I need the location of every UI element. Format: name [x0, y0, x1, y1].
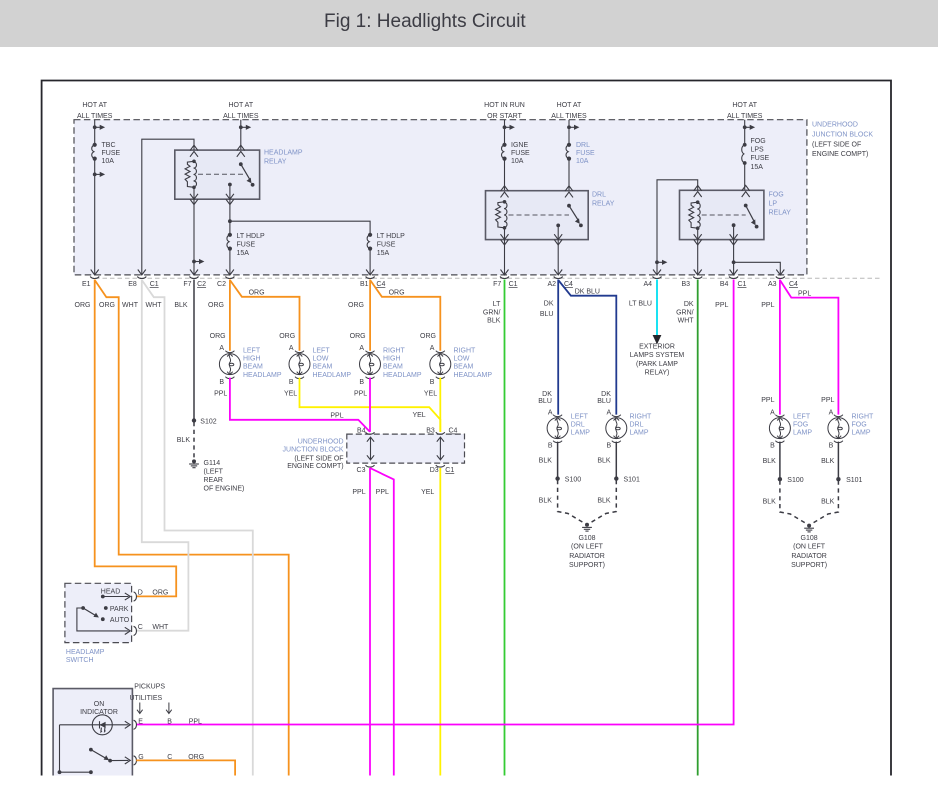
svg-text:PPL: PPL	[376, 489, 389, 496]
svg-text:ORG: ORG	[348, 302, 364, 309]
svg-text:F7: F7	[183, 281, 191, 288]
svg-text:LEFT: LEFT	[793, 413, 811, 420]
label ON INDICATOR	[80, 701, 118, 716]
svg-text:BLK: BLK	[539, 458, 553, 465]
fuse LT HDLP FUSE 15A right	[367, 233, 372, 251]
svg-text:BLK: BLK	[597, 498, 611, 505]
wire TBC feed	[94, 120, 96, 275]
svg-text:E: E	[138, 718, 143, 725]
svg-text:B3: B3	[426, 428, 435, 435]
label A2 C4	[547, 281, 573, 288]
svg-text:WHT: WHT	[152, 624, 169, 631]
connector cup C2	[225, 277, 234, 279]
svg-text:G108: G108	[578, 535, 595, 542]
svg-text:UNDERHOOD: UNDERHOOD	[812, 121, 858, 128]
svg-text:G114: G114	[204, 460, 221, 467]
pin chevrons DRL coil bottom	[501, 234, 509, 245]
label DK GRN/ WHT	[676, 301, 694, 325]
svg-text:GRN/: GRN/	[676, 309, 694, 316]
actuator dashed link	[198, 173, 246, 175]
fuse LT HDLP FUSE 15A left	[227, 233, 232, 251]
svg-text:JUNCTION BLOCK: JUNCTION BLOCK	[812, 132, 873, 139]
svg-text:HEADLAMP: HEADLAMP	[383, 372, 422, 379]
svg-text:LT HDLP: LT HDLP	[377, 233, 405, 240]
svg-text:ORG: ORG	[420, 333, 436, 340]
coil FOG relay	[689, 200, 700, 230]
label DK BLU at right DRL lamp	[597, 391, 611, 405]
svg-text:LT: LT	[493, 301, 501, 308]
svg-text:C1: C1	[738, 281, 747, 288]
fuse IGNE FUSE 10A	[502, 143, 507, 161]
label HEADLAMP SWITCH	[66, 649, 105, 664]
node B+ tap dot arrow	[93, 125, 105, 130]
svg-text:B: B	[548, 443, 553, 450]
svg-text:BLK: BLK	[597, 458, 611, 465]
wire into LED	[60, 724, 129, 726]
node tap dot arrow	[567, 125, 579, 130]
svg-text:LP: LP	[769, 200, 778, 207]
switch output pin DRL relay	[556, 224, 560, 275]
node HOT IN RUN OR START	[484, 102, 525, 120]
svg-text:A2: A2	[547, 281, 556, 288]
label G114 (LEFT REAR OF ENGINE)	[204, 460, 245, 492]
label EXTERIOR LAMPS SYSTEM (PARK LAMP RELAY)	[630, 344, 685, 377]
node tap dot arrow 2	[93, 172, 105, 177]
svg-text:B: B	[359, 379, 364, 386]
label LT HDLP FUSE 15A left	[237, 233, 265, 257]
svg-text:FUSE: FUSE	[237, 242, 256, 249]
svg-text:BLK: BLK	[821, 498, 835, 505]
wire LT GRN/BLK down	[504, 280, 506, 776]
jb2 internal arrow right	[437, 437, 444, 460]
wire BLK dashed left DRL to G108	[558, 480, 584, 523]
svg-text:15A: 15A	[237, 250, 250, 257]
svg-text:BEAM: BEAM	[454, 363, 474, 370]
svg-text:AUTO: AUTO	[110, 617, 130, 624]
svg-text:LPS: LPS	[751, 146, 765, 153]
connector cup B3 (fog coil)	[693, 277, 702, 279]
svg-text:ORG: ORG	[99, 302, 115, 309]
wire BLK dashed right DRL to G108	[590, 480, 616, 523]
label FOG LPS FUSE 15A	[751, 138, 770, 171]
svg-text:C4: C4	[449, 428, 458, 435]
connector cup B3	[436, 432, 445, 434]
svg-text:A: A	[548, 410, 553, 417]
switch pivot indicator	[89, 748, 93, 752]
wire BLK left DRL to S100	[557, 442, 559, 479]
svg-text:YEL: YEL	[412, 412, 425, 419]
label D3 C1	[430, 467, 455, 474]
wire YEL D3 down	[439, 468, 441, 776]
svg-text:RIGHT: RIGHT	[630, 413, 653, 420]
label LT HDLP FUSE 15A right	[377, 233, 405, 257]
lamp RIGHT FOG LAMP	[828, 415, 849, 443]
svg-text:WHT: WHT	[122, 302, 139, 309]
wire ORG E1 branch 2 (to bottom)	[95, 280, 289, 776]
pointer arrow to B	[166, 703, 172, 714]
arrow into C	[125, 627, 131, 634]
svg-text:B: B	[219, 379, 224, 386]
wire ORG E1 branch 1 (to headlamp switch D)	[95, 280, 177, 597]
svg-text:E8: E8	[128, 281, 137, 288]
actuator dashed link FOG	[702, 214, 746, 216]
svg-text:HEADLAMP: HEADLAMP	[264, 150, 303, 157]
wire IGNE feed	[504, 120, 506, 191]
svg-text:DK BLU: DK BLU	[575, 289, 600, 296]
wire WHT E8 branch 2 (to bottom)	[142, 280, 253, 776]
svg-text:C1: C1	[445, 467, 454, 474]
svg-text:D: D	[138, 590, 143, 597]
svg-text:PPL: PPL	[214, 391, 227, 398]
node tap dot arrow	[239, 125, 251, 130]
coil DRL relay	[496, 200, 507, 230]
svg-text:ALL TIMES: ALL TIMES	[551, 113, 587, 120]
node HOT AT ALL TIMES (FOG)	[727, 102, 763, 120]
svg-text:BEAM: BEAM	[313, 363, 333, 370]
svg-text:HEAD: HEAD	[101, 589, 120, 596]
label PICKUPS UTILITIES	[130, 684, 166, 703]
svg-text:A: A	[829, 410, 834, 417]
svg-text:C3: C3	[357, 467, 366, 474]
svg-text:BLU: BLU	[540, 311, 554, 318]
svg-text:ORG: ORG	[389, 290, 405, 297]
svg-text:RELAY: RELAY	[592, 200, 615, 207]
wire PPL A3 to left fog lamp	[779, 280, 781, 415]
svg-text:(LEFT SIDE OF: (LEFT SIDE OF	[294, 455, 343, 462]
connector cup C	[134, 626, 137, 635]
label RIGHT HIGH BEAM HEADLAMP	[383, 347, 422, 379]
label LEFT DRL LAMP	[571, 413, 590, 436]
ground G108 (fog)	[804, 524, 814, 532]
wire BLK dashed right fog to G108	[812, 481, 838, 524]
svg-text:FUSE: FUSE	[576, 150, 595, 157]
svg-text:15A: 15A	[751, 164, 764, 171]
svg-text:HEADLAMP: HEADLAMP	[66, 649, 105, 656]
label RIGHT LOW BEAM HEADLAMP	[454, 347, 493, 379]
svg-text:10A: 10A	[102, 158, 115, 165]
node S102	[192, 418, 217, 425]
svg-text:UNDERHOOD: UNDERHOOD	[298, 438, 344, 445]
connector cup E	[134, 720, 137, 729]
svg-text:BLU: BLU	[538, 398, 552, 405]
svg-text:B: B	[607, 443, 612, 450]
svg-text:YEL: YEL	[421, 489, 434, 496]
wire YEL lamp4 to B3	[439, 378, 441, 432]
wire headlamp relay switch feed	[240, 120, 242, 165]
switch blade DRL relay	[569, 206, 583, 228]
label B4 C1	[720, 281, 747, 288]
wire ORG B1 branch to right low beam	[370, 280, 440, 351]
svg-text:BLK: BLK	[177, 437, 191, 444]
LED indicator	[92, 715, 112, 735]
wire PPL lamp1 to B4	[230, 378, 370, 432]
svg-text:S100: S100	[787, 477, 803, 484]
label D ORG	[138, 590, 169, 597]
label E B PPL	[138, 718, 202, 725]
svg-text:B: B	[770, 443, 775, 450]
pin chevrons output bottom	[226, 194, 234, 205]
svg-text:10A: 10A	[511, 158, 524, 165]
lamp RIGHT HIGH BEAM HEADLAMP	[360, 351, 381, 379]
svg-text:RIGHT: RIGHT	[852, 413, 875, 420]
label A3 C4	[768, 281, 798, 288]
svg-text:ALL TIMES: ALL TIMES	[223, 113, 259, 120]
svg-text:HOT IN RUN: HOT IN RUN	[484, 102, 525, 109]
svg-text:BEAM: BEAM	[243, 363, 263, 370]
label LEFT HIGH BEAM HEADLAMP	[243, 347, 282, 379]
svg-text:LEFT: LEFT	[313, 347, 331, 354]
wire DK BLU A2 branch to right DRL lamp	[558, 280, 616, 415]
node HOT AT ALL TIMES (TBC)	[77, 102, 113, 120]
svg-text:FUSE: FUSE	[102, 150, 121, 157]
pin chevrons switch top	[237, 145, 245, 157]
svg-text:G108: G108	[801, 535, 818, 542]
wire DRL fuse feed	[568, 120, 570, 206]
label LT GRN/ BLK	[483, 301, 501, 325]
wire branch to right fuse	[230, 221, 370, 275]
svg-text:LOW: LOW	[454, 356, 470, 363]
connector cup B1	[366, 277, 375, 279]
node dot arrow before F7	[192, 259, 204, 264]
svg-text:FUSE: FUSE	[511, 150, 530, 157]
svg-text:REAR: REAR	[204, 477, 223, 484]
svg-text:BLK: BLK	[763, 458, 777, 465]
svg-text:ORG: ORG	[279, 333, 295, 340]
svg-text:B: B	[430, 379, 435, 386]
exit arrow C2	[226, 270, 234, 275]
svg-text:WHT: WHT	[146, 302, 163, 309]
wire ORG C2 branch to left low beam	[230, 280, 300, 351]
svg-text:LAMP: LAMP	[793, 430, 812, 437]
svg-text:Fig 1: Headlights Circuit: Fig 1: Headlights Circuit	[324, 11, 526, 32]
label LEFT FOG LAMP	[793, 413, 812, 436]
svg-text:15A: 15A	[377, 250, 390, 257]
svg-text:C: C	[138, 624, 143, 631]
svg-text:PPL: PPL	[189, 718, 202, 725]
contact PARK dot	[104, 606, 129, 613]
svg-text:ENGINE COMPT): ENGINE COMPT)	[812, 151, 868, 158]
label B3 C4	[426, 428, 457, 435]
label DK BLU at left DRL lamp	[538, 391, 552, 405]
svg-text:(ON LEFT: (ON LEFT	[793, 544, 826, 551]
label G C ORG	[138, 754, 204, 761]
switch pivot headlamp relay	[239, 162, 243, 166]
svg-text:ORG: ORG	[75, 302, 91, 309]
pin chevrons fog output bottom	[730, 234, 738, 245]
pin chevrons coil bottom	[190, 194, 198, 205]
label TBC FUSE 10A	[102, 142, 121, 165]
wire WHT E8 branch 1 (to switch C)	[136, 280, 188, 631]
arrow into E	[125, 721, 131, 728]
svg-text:FUSE: FUSE	[751, 155, 770, 162]
label DK BLU stacked	[540, 301, 554, 319]
label G108 (ON LEFT RADIATOR SUPPORT)	[569, 535, 605, 569]
svg-text:DK: DK	[544, 301, 554, 308]
svg-text:LT HDLP: LT HDLP	[237, 233, 265, 240]
svg-text:FOG: FOG	[793, 421, 808, 428]
switch pivot headlamp switch	[81, 606, 85, 610]
wire BLK to S102	[193, 280, 195, 421]
ground G108 (drl)	[582, 523, 592, 531]
svg-text:HOT AT: HOT AT	[557, 102, 582, 109]
svg-text:ORG: ORG	[210, 333, 226, 340]
label G108 (ON LEFT RADIATOR SUPPORT) fog	[791, 535, 827, 569]
label DRL RELAY	[592, 191, 615, 207]
node dots bottom row	[58, 770, 93, 774]
svg-text:F7: F7	[493, 281, 501, 288]
pin chevrons fog coil top	[694, 185, 702, 197]
label E8 C1	[128, 281, 159, 288]
wire ORG C2 to left high beam	[229, 280, 231, 351]
pin chevrons FOG switch top	[742, 185, 750, 197]
svg-text:C4: C4	[789, 281, 798, 288]
svg-text:BLU: BLU	[597, 398, 611, 405]
svg-text:WHT: WHT	[678, 318, 695, 325]
relay DRL RELAY box	[486, 191, 589, 240]
svg-text:GRN/: GRN/	[483, 309, 501, 316]
svg-text:HEADLAMP: HEADLAMP	[313, 372, 352, 379]
arrow to exterior lamps	[653, 335, 662, 345]
label F7 C2	[183, 281, 206, 288]
underhood junction block label	[812, 121, 873, 158]
lamp LEFT HIGH BEAM HEADLAMP	[219, 351, 240, 379]
wire fog output branch to A3	[734, 262, 781, 275]
switch blade FOG relay	[746, 206, 759, 229]
connector cup F7 (DRL)	[500, 277, 509, 279]
wire BLK right DRL to S101	[615, 442, 617, 479]
pin chevrons coil top	[190, 145, 198, 157]
label FOG LP RELAY	[769, 191, 792, 216]
svg-text:HIGH: HIGH	[243, 356, 261, 363]
node dot fog output split	[732, 260, 736, 264]
svg-text:RELAY: RELAY	[264, 159, 287, 166]
switch blade headlamp relay	[241, 164, 255, 187]
svg-text:LAMP: LAMP	[852, 430, 871, 437]
exit arrow F7 (DRL)	[501, 270, 509, 275]
svg-text:PARK: PARK	[110, 606, 129, 613]
svg-text:HOT AT: HOT AT	[82, 102, 107, 109]
svg-text:LT BLU: LT BLU	[629, 301, 652, 308]
pin chevrons DRL switch top	[565, 186, 573, 198]
exit arrow A4	[653, 270, 661, 275]
svg-text:DRL: DRL	[571, 421, 585, 428]
svg-text:A3: A3	[768, 281, 777, 288]
svg-text:A: A	[607, 410, 612, 417]
label RIGHT DRL LAMP	[630, 413, 653, 436]
svg-text:SUPPORT): SUPPORT)	[569, 562, 605, 569]
svg-text:TBC: TBC	[102, 142, 116, 149]
svg-text:YEL: YEL	[424, 391, 437, 398]
svg-text:UTILITIES: UTILITIES	[130, 695, 163, 702]
node HOT AT ALL TIMES (headlamp relay)	[223, 102, 259, 120]
svg-text:HOT AT: HOT AT	[732, 102, 757, 109]
coil headlamp relay	[185, 160, 196, 190]
label B1 C4	[360, 281, 386, 288]
node S100 (fog)	[778, 477, 804, 484]
switch blade indicator	[91, 750, 112, 763]
label UNDERHOOD JUNCTION BLOCK (LEFT SIDE OF ENGINE COMPT)	[283, 438, 344, 470]
arrow into D	[125, 593, 131, 600]
exit arrow A2	[554, 270, 562, 275]
svg-text:JUNCTION BLOCK: JUNCTION BLOCK	[283, 446, 344, 453]
fuse FOG LPS FUSE 15A	[742, 143, 747, 165]
connector cup A4	[653, 277, 662, 279]
wire E8 coil top link	[142, 139, 194, 275]
svg-text:S102: S102	[200, 419, 216, 426]
exit arrow F7	[190, 270, 198, 275]
label DRL FUSE 10A	[576, 142, 595, 165]
svg-text:10A: 10A	[576, 158, 589, 165]
switch output pin headlamp relay	[228, 183, 232, 222]
lamp LEFT LOW BEAM HEADLAMP	[289, 351, 310, 379]
svg-text:EXTERIOR: EXTERIOR	[639, 344, 675, 351]
wire FOG fuse feed	[744, 120, 746, 206]
svg-text:BLK: BLK	[763, 498, 777, 505]
connector cup E8	[137, 277, 146, 279]
exit arrow E8	[138, 270, 146, 275]
svg-text:(LEFT: (LEFT	[204, 468, 224, 475]
svg-text:ENGINE COMPT): ENGINE COMPT)	[287, 463, 343, 470]
connector cup B4 (fog)	[729, 277, 738, 279]
exit arrow A3	[776, 270, 784, 275]
svg-text:BLK: BLK	[174, 302, 188, 309]
node tap dot arrow	[503, 125, 515, 130]
connector cup A3	[776, 277, 785, 279]
wire fog coil top link to A4	[657, 180, 698, 275]
wire BLK dashed left fog to G108	[780, 481, 806, 524]
svg-text:C2: C2	[197, 281, 206, 288]
node tap dot arrow	[743, 125, 755, 130]
switch output pin FOG relay	[732, 223, 736, 275]
junction block 2 box	[347, 434, 465, 463]
svg-text:HEADLAMP: HEADLAMP	[454, 372, 493, 379]
wire YEL lamp2 to B3	[300, 378, 441, 432]
svg-text:PPL: PPL	[354, 391, 367, 398]
svg-text:PPL: PPL	[798, 290, 811, 297]
wire BLK dashed to G114	[193, 422, 195, 459]
svg-text:A: A	[289, 345, 294, 352]
svg-text:B: B	[829, 443, 834, 450]
ground G114	[189, 459, 199, 467]
relay FOG LP RELAY box	[680, 190, 764, 239]
svg-text:LAMP: LAMP	[571, 430, 590, 437]
svg-text:LAMPS SYSTEM: LAMPS SYSTEM	[630, 352, 685, 359]
svg-text:C2: C2	[217, 281, 226, 288]
fuse DRL FUSE 10A	[566, 143, 571, 161]
pointer arrow to E	[137, 703, 143, 714]
svg-text:BLK: BLK	[821, 458, 835, 465]
svg-text:FOG: FOG	[769, 191, 784, 198]
switch pivot DRL relay	[567, 204, 571, 208]
svg-text:FOG: FOG	[751, 138, 766, 145]
node S101 (fog)	[836, 477, 862, 484]
underhood junction block (dashed box)	[74, 120, 807, 275]
wire DK BLU A2 to left DRL lamp	[557, 280, 559, 415]
svg-text:HIGH: HIGH	[383, 356, 401, 363]
svg-text:LEFT: LEFT	[243, 347, 261, 354]
headlamp switch dashed box	[65, 583, 132, 642]
svg-text:RELAY: RELAY	[769, 209, 792, 216]
svg-text:(LEFT SIDE OF: (LEFT SIDE OF	[812, 141, 861, 148]
wire LT BLU down	[656, 280, 658, 337]
label HEADLAMP RELAY	[264, 150, 303, 166]
svg-text:SWITCH: SWITCH	[66, 657, 94, 664]
svg-text:PPL: PPL	[761, 397, 774, 404]
svg-text:B3: B3	[681, 281, 690, 288]
lamp LEFT FOG LAMP	[769, 415, 790, 443]
wire pivot to C	[77, 608, 129, 631]
svg-text:PPL: PPL	[330, 413, 343, 420]
